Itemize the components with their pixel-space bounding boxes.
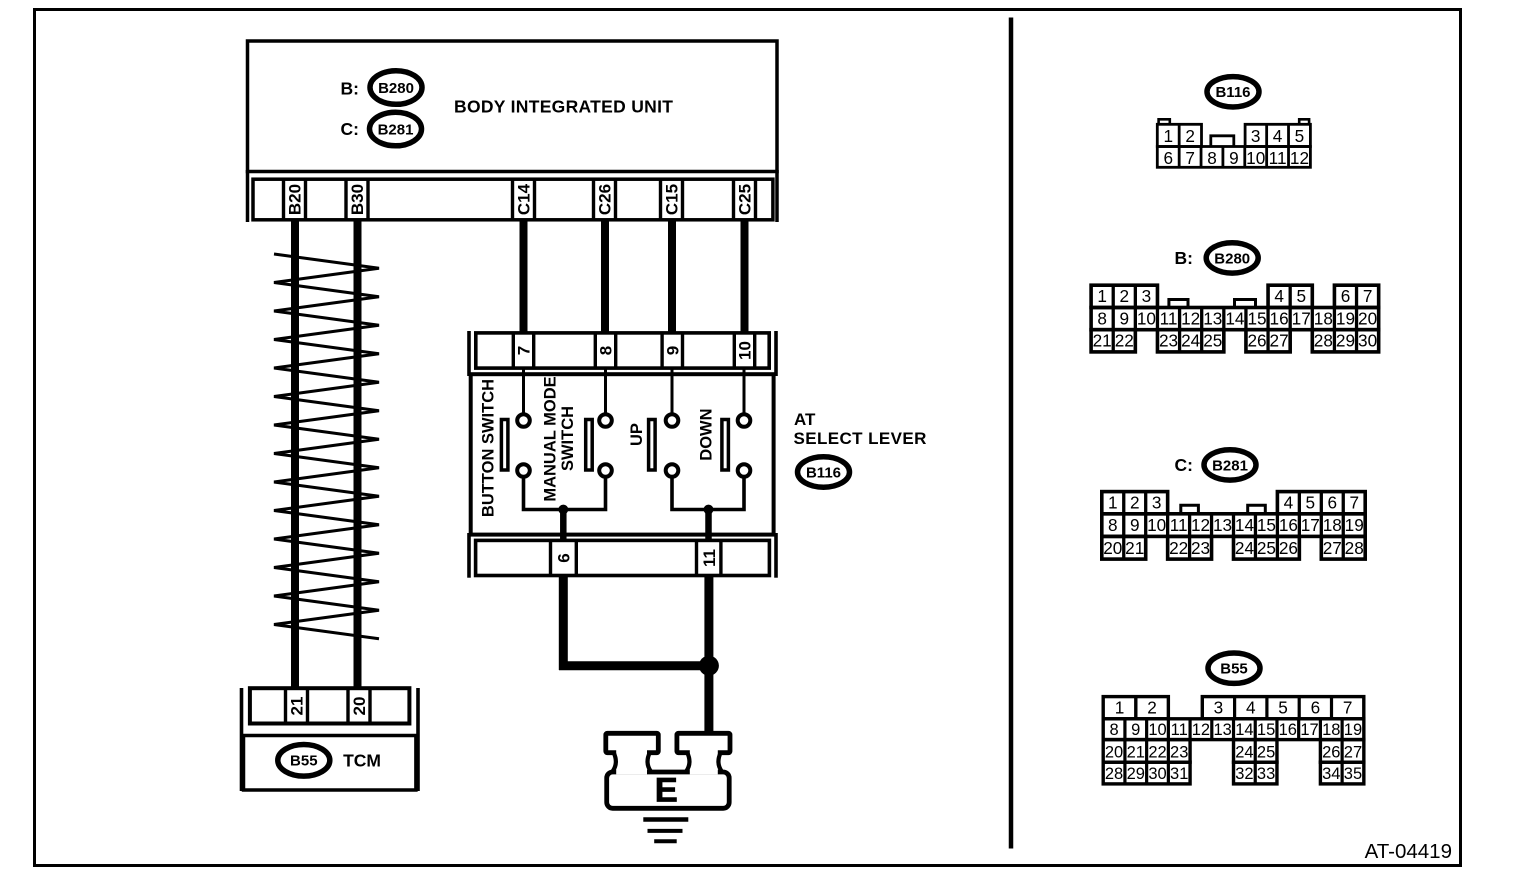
- connector B55 blocks: [1103, 697, 1364, 784]
- svg-text:3: 3: [1142, 286, 1152, 306]
- wire pin7 to button switch: [522, 368, 525, 414]
- svg-text:AT: AT: [794, 410, 816, 429]
- svg-text:C:: C:: [341, 119, 359, 139]
- svg-text:12: 12: [1181, 309, 1200, 329]
- svg-text:10: 10: [1246, 148, 1265, 168]
- svg-text:E: E: [655, 772, 678, 810]
- label DOWN: [697, 408, 715, 460]
- wire B20 to TCM 21: [291, 219, 299, 688]
- svg-text:11: 11: [1269, 148, 1287, 168]
- svg-text:6: 6: [1341, 286, 1351, 306]
- AT top strip bracket left: [467, 331, 471, 376]
- svg-text:22: 22: [1169, 538, 1188, 558]
- svg-text:24: 24: [1181, 331, 1201, 351]
- svg-text:4: 4: [1246, 698, 1256, 718]
- svg-text:3: 3: [1152, 493, 1162, 513]
- divider line: [1009, 18, 1014, 849]
- connector B281 tab 2: [1248, 505, 1266, 512]
- svg-text:B116: B116: [806, 464, 841, 481]
- svg-text:16: 16: [1270, 309, 1289, 329]
- svg-text:B55: B55: [290, 753, 318, 770]
- svg-text:10: 10: [1137, 309, 1156, 329]
- svg-text:6: 6: [1327, 493, 1337, 513]
- svg-text:9: 9: [1130, 515, 1140, 535]
- svg-text:3: 3: [1251, 126, 1261, 146]
- svg-text:14: 14: [1235, 515, 1255, 535]
- svg-text:B280: B280: [378, 80, 414, 97]
- svg-text:13: 13: [1213, 515, 1232, 535]
- svg-text:17: 17: [1292, 309, 1311, 329]
- label C: (pinout): [1175, 455, 1193, 475]
- pin label B30: [348, 184, 367, 215]
- ground hatch line 3: [654, 839, 677, 843]
- wire up+down to node: [672, 475, 744, 510]
- AT top connector strip: [476, 333, 769, 368]
- figure number AT-04419: [1365, 840, 1452, 863]
- svg-text:5: 5: [1306, 493, 1316, 513]
- svg-text:26: 26: [1247, 331, 1266, 351]
- switch SW1 BUTTON SWITCH: [501, 414, 529, 477]
- svg-text:27: 27: [1344, 743, 1362, 761]
- svg-text:34: 34: [1322, 765, 1340, 783]
- svg-text:B281: B281: [1212, 457, 1248, 474]
- svg-text:C15: C15: [663, 184, 682, 215]
- svg-text:28: 28: [1345, 538, 1364, 558]
- switch SW2 MANUAL MODE SWITCH: [586, 414, 612, 477]
- svg-text:10: 10: [1147, 515, 1166, 535]
- connector B116 outline: [1157, 124, 1310, 167]
- svg-text:24: 24: [1235, 538, 1255, 558]
- svg-text:30: 30: [1148, 765, 1166, 783]
- svg-text:20: 20: [350, 697, 369, 716]
- svg-text:C14: C14: [515, 183, 534, 215]
- svg-text:8: 8: [1109, 721, 1118, 739]
- svg-text:23: 23: [1170, 743, 1188, 761]
- pin label C25: [736, 184, 755, 215]
- svg-text:11: 11: [700, 549, 719, 567]
- svg-text:TCM: TCM: [343, 751, 381, 771]
- svg-text:25: 25: [1257, 538, 1276, 558]
- svg-text:9: 9: [1229, 148, 1239, 168]
- svg-text:5: 5: [1296, 286, 1306, 306]
- svg-text:33: 33: [1257, 765, 1275, 783]
- svg-text:10: 10: [736, 341, 755, 360]
- svg-text:C:: C:: [1175, 455, 1193, 475]
- svg-text:16: 16: [1279, 515, 1298, 535]
- wire C14 to pin7: [520, 219, 528, 334]
- svg-text:6: 6: [1311, 698, 1321, 718]
- ground hatch line 1: [643, 817, 688, 822]
- svg-text:7: 7: [1349, 493, 1359, 513]
- svg-text:B20: B20: [286, 184, 305, 215]
- svg-text:B116: B116: [1215, 84, 1250, 101]
- svg-text:DOWN: DOWN: [697, 408, 715, 460]
- connector B281 cell borders: [1124, 492, 1344, 559]
- pin label C26: [596, 184, 615, 215]
- connector oval B116 (at lever): [798, 457, 850, 487]
- svg-text:20: 20: [1103, 538, 1122, 558]
- svg-text:26: 26: [1322, 743, 1340, 761]
- pin label 11: [700, 549, 719, 567]
- svg-text:17: 17: [1300, 721, 1318, 739]
- pin label 20: [350, 697, 369, 716]
- svg-text:35: 35: [1344, 765, 1362, 783]
- svg-text:AT-04419: AT-04419: [1365, 840, 1452, 863]
- svg-text:19: 19: [1336, 309, 1355, 329]
- connector B281 blocks: [1102, 492, 1365, 560]
- connector B280 tab 2: [1235, 300, 1256, 307]
- svg-text:22: 22: [1148, 743, 1166, 761]
- pin label 8: [597, 346, 616, 355]
- svg-text:24: 24: [1235, 743, 1253, 761]
- svg-text:8: 8: [597, 346, 616, 355]
- wire pin11 down to ground: [704, 575, 713, 733]
- svg-text:2: 2: [1147, 698, 1157, 718]
- ground hatch line 2: [648, 829, 683, 833]
- wire node to pin6: [560, 510, 567, 543]
- label UP: [628, 423, 646, 446]
- label SELECT LEVER: [794, 429, 927, 448]
- label BODY INTEGRATED UNIT: [454, 97, 673, 117]
- pin label 10: [736, 341, 755, 360]
- svg-text:11: 11: [1160, 309, 1178, 329]
- junction node ground: [699, 656, 719, 676]
- svg-text:B:: B:: [1175, 248, 1193, 268]
- label AT: [794, 410, 816, 429]
- svg-text:32: 32: [1235, 765, 1253, 783]
- svg-text:30: 30: [1358, 331, 1377, 351]
- svg-text:2: 2: [1119, 286, 1129, 306]
- svg-text:7: 7: [1363, 286, 1373, 306]
- svg-text:5: 5: [1295, 126, 1305, 146]
- BIU strip bracket left: [246, 170, 250, 222]
- pin label 6: [555, 553, 574, 562]
- svg-text:3: 3: [1214, 698, 1224, 718]
- svg-text:27: 27: [1323, 538, 1342, 558]
- svg-text:22: 22: [1115, 331, 1134, 351]
- svg-text:20: 20: [1105, 743, 1123, 761]
- svg-text:23: 23: [1191, 538, 1210, 558]
- svg-text:SELECT LEVER: SELECT LEVER: [794, 429, 927, 448]
- svg-text:27: 27: [1270, 331, 1289, 351]
- svg-text:10: 10: [1148, 721, 1166, 739]
- svg-text:21: 21: [1093, 331, 1112, 351]
- svg-text:7: 7: [1185, 148, 1195, 168]
- connector oval B280 (in box): [370, 71, 422, 105]
- svg-text:8: 8: [1097, 309, 1107, 329]
- pin label C15: [663, 184, 682, 215]
- AT SELECT LEVER box: [471, 374, 774, 534]
- svg-text:12: 12: [1191, 515, 1210, 535]
- TCM box: [244, 736, 416, 791]
- svg-text:15: 15: [1247, 309, 1266, 329]
- wire C26 to pin8: [601, 219, 609, 334]
- label B:: [341, 78, 359, 98]
- AT bottom strip bracket left: [467, 533, 471, 578]
- svg-text:14: 14: [1235, 721, 1253, 739]
- svg-text:13: 13: [1213, 721, 1231, 739]
- connector B280 blocks: [1091, 285, 1379, 352]
- svg-text:1: 1: [1115, 698, 1125, 718]
- wire pin9 to up switch: [671, 368, 674, 414]
- svg-text:31: 31: [1170, 765, 1188, 783]
- BIU strip cell borders: [284, 179, 756, 220]
- wire node to pin11: [705, 510, 712, 543]
- junction node up/down: [704, 505, 714, 515]
- connector B116 tab left: [1159, 119, 1170, 124]
- svg-text:B30: B30: [348, 184, 367, 215]
- svg-text:18: 18: [1314, 309, 1333, 329]
- svg-text:21: 21: [1127, 743, 1145, 761]
- pin label 9: [663, 346, 682, 355]
- AT top strip cell borders: [513, 333, 754, 368]
- pin label 21: [288, 697, 307, 716]
- label TCM: [343, 751, 381, 771]
- svg-text:28: 28: [1105, 765, 1123, 783]
- connector B281 tab 1: [1181, 505, 1199, 512]
- connector oval B55 (pinout): [1208, 653, 1260, 683]
- ground stud E: [606, 733, 730, 809]
- connector oval B281 (in box): [370, 112, 422, 146]
- connector oval B116 (pinout): [1207, 77, 1259, 107]
- svg-text:MANUAL MODE: MANUAL MODE: [541, 376, 559, 501]
- TCM strip bracket right: [416, 688, 420, 791]
- svg-text:13: 13: [1203, 309, 1222, 329]
- svg-text:9: 9: [1131, 721, 1140, 739]
- svg-text:4: 4: [1273, 126, 1283, 146]
- svg-text:4: 4: [1284, 493, 1294, 513]
- svg-text:9: 9: [663, 346, 682, 355]
- svg-text:11: 11: [1171, 721, 1188, 739]
- svg-text:1: 1: [1097, 286, 1107, 306]
- svg-text:B:: B:: [341, 78, 359, 98]
- svg-text:B55: B55: [1220, 661, 1248, 678]
- svg-text:18: 18: [1323, 515, 1342, 535]
- svg-text:2: 2: [1185, 126, 1195, 146]
- pin label B20: [286, 184, 305, 215]
- svg-text:21: 21: [288, 697, 307, 716]
- svg-text:20: 20: [1358, 309, 1377, 329]
- svg-text:BUTTON SWITCH: BUTTON SWITCH: [479, 379, 497, 517]
- svg-text:21: 21: [1125, 538, 1144, 558]
- wire C25 to pin10: [741, 219, 749, 334]
- wire pin10 to down switch: [743, 368, 746, 414]
- TCM strip bracket left: [240, 688, 244, 791]
- svg-text:6: 6: [1163, 148, 1173, 168]
- BIU connector strip box: [253, 179, 773, 220]
- svg-text:29: 29: [1336, 331, 1355, 351]
- connector B116 tab middle: [1211, 136, 1234, 146]
- switch SW4 DOWN: [722, 414, 750, 477]
- svg-text:9: 9: [1119, 309, 1129, 329]
- connector B280 tab 1: [1169, 300, 1188, 307]
- svg-text:1: 1: [1108, 493, 1118, 513]
- svg-text:12: 12: [1192, 721, 1210, 739]
- connector B280 cell borders: [1113, 285, 1356, 352]
- svg-text:28: 28: [1314, 331, 1333, 351]
- TCM connector strip: [250, 688, 410, 723]
- svg-text:6: 6: [555, 553, 574, 562]
- svg-text:29: 29: [1127, 765, 1145, 783]
- BIU strip bracket right: [775, 170, 779, 222]
- svg-text:15: 15: [1257, 515, 1276, 535]
- svg-text:C26: C26: [596, 184, 615, 215]
- junction node button/manual: [558, 505, 568, 515]
- svg-text:7: 7: [515, 346, 534, 355]
- connector B55 pin numbers: [1105, 698, 1362, 784]
- connector oval B55 (TCM): [278, 745, 330, 777]
- svg-text:2: 2: [1130, 493, 1140, 513]
- svg-text:26: 26: [1279, 538, 1298, 558]
- label MANUAL MODE line1: [541, 376, 559, 501]
- pin label C14: [515, 183, 534, 215]
- svg-text:23: 23: [1159, 331, 1178, 351]
- svg-text:19: 19: [1344, 721, 1362, 739]
- label BUTTON SWITCH: [479, 379, 497, 517]
- connector B116 cell borders: [1179, 124, 1288, 167]
- svg-text:7: 7: [1343, 698, 1353, 718]
- connector B280 pin numbers: [1093, 286, 1378, 351]
- svg-text:8: 8: [1108, 515, 1118, 535]
- ECU box BODY INTEGRATED UNIT: [248, 41, 778, 172]
- svg-text:UP: UP: [628, 423, 646, 446]
- svg-text:25: 25: [1203, 331, 1222, 351]
- connector oval B280 (pinout): [1206, 243, 1258, 273]
- svg-text:16: 16: [1279, 721, 1297, 739]
- svg-text:25: 25: [1257, 743, 1275, 761]
- svg-text:B280: B280: [1214, 250, 1250, 267]
- pin label 7: [515, 346, 534, 355]
- wire B30 to TCM 20: [354, 219, 362, 688]
- wire pin8 to manual mode switch: [604, 368, 607, 414]
- svg-text:11: 11: [1170, 515, 1188, 535]
- svg-text:18: 18: [1322, 721, 1340, 739]
- svg-text:BODY INTEGRATED UNIT: BODY INTEGRATED UNIT: [454, 97, 673, 117]
- connector B116 pin numbers: [1163, 126, 1309, 168]
- wire button+manual to node: [524, 475, 606, 510]
- twisted pair wires B20/B30: [274, 254, 379, 639]
- connector oval B281 (pinout): [1204, 450, 1256, 480]
- AT bottom connector strip: [476, 540, 770, 575]
- TCM strip cell borders: [286, 688, 371, 723]
- wire C15 to pin9: [668, 219, 676, 334]
- svg-text:5: 5: [1278, 698, 1288, 718]
- connector B116 tab right: [1299, 119, 1309, 124]
- svg-text:12: 12: [1290, 148, 1309, 168]
- wire pin6 down: [559, 575, 568, 670]
- svg-text:SWITCH: SWITCH: [559, 406, 577, 471]
- AT top strip bracket right: [774, 331, 778, 376]
- AT bottom strip cell borders: [551, 540, 721, 575]
- wire pin6 horizontal to node: [559, 661, 709, 670]
- label MANUAL MODE line2 SWITCH: [559, 406, 577, 471]
- svg-text:B281: B281: [378, 121, 414, 138]
- label B: (pinout): [1175, 248, 1193, 268]
- connector B281 pin numbers: [1103, 493, 1364, 558]
- svg-text:1: 1: [1163, 126, 1173, 146]
- svg-text:C25: C25: [736, 184, 755, 215]
- connector B55 cell borders: [1125, 697, 1342, 784]
- svg-text:14: 14: [1225, 309, 1245, 329]
- svg-text:17: 17: [1301, 515, 1320, 535]
- svg-text:4: 4: [1274, 286, 1284, 306]
- switch SW3 UP: [649, 414, 679, 477]
- svg-text:8: 8: [1207, 148, 1217, 168]
- label C:: [341, 119, 359, 139]
- svg-text:19: 19: [1345, 515, 1364, 535]
- svg-text:15: 15: [1257, 721, 1275, 739]
- AT bottom strip bracket right: [774, 533, 778, 578]
